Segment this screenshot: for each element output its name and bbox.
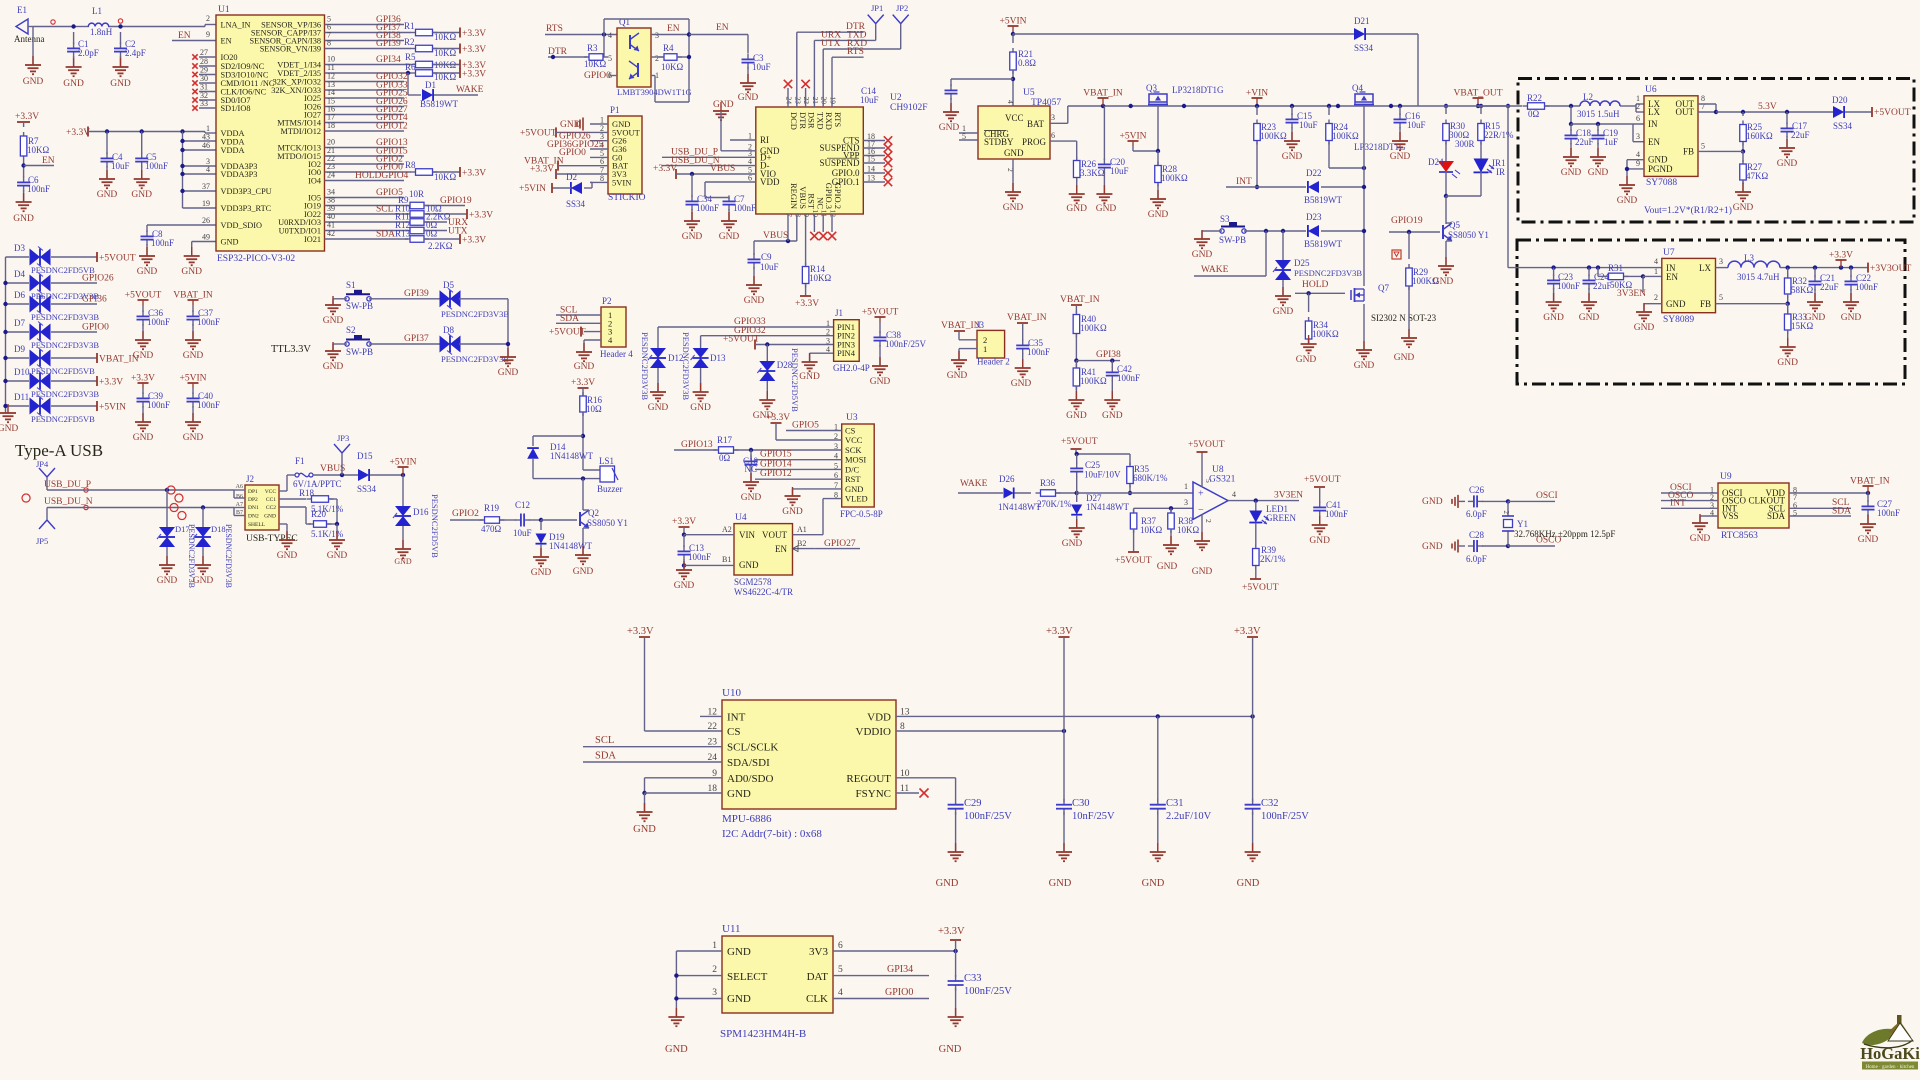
svg-text:SY7088: SY7088 xyxy=(1646,178,1677,188)
ground U5 GND pin2 xyxy=(1003,159,1024,213)
net GPIO33 to J1 pin1 xyxy=(658,317,834,327)
svg-text:1: 1 xyxy=(748,132,752,141)
svg-text:C33: C33 xyxy=(964,973,982,984)
net RTS U2 pin19 xyxy=(832,47,864,107)
svg-text:100nF/25V: 100nF/25V xyxy=(964,986,1012,997)
svg-text:LNA_IN: LNA_IN xyxy=(221,21,251,30)
svg-text:SS34: SS34 xyxy=(1354,43,1374,53)
svg-text:WS4622C-4/TR: WS4622C-4/TR xyxy=(734,587,793,597)
svg-text:14: 14 xyxy=(867,165,875,174)
svg-text:GND: GND xyxy=(665,1044,688,1055)
ground D25 xyxy=(1273,280,1294,317)
svg-text:GND: GND xyxy=(741,493,762,503)
ground C23 xyxy=(1543,288,1564,323)
switch S2 SW-PB xyxy=(333,325,373,357)
ground C42 xyxy=(1102,391,1123,421)
TVS diode D6 PESDNC2FD3V3B xyxy=(3,290,107,322)
capacitor C36 +5VOUT xyxy=(125,291,170,328)
svg-text:GPI36: GPI36 xyxy=(82,295,107,305)
svg-text:GND: GND xyxy=(1543,313,1564,323)
svg-text:GND: GND xyxy=(1148,210,1169,220)
net VBUS wire + antenna JP3 xyxy=(313,433,358,477)
svg-text:4: 4 xyxy=(608,31,612,40)
net GPIO32 xyxy=(325,72,408,83)
svg-text:1: 1 xyxy=(1654,267,1658,276)
svg-text:+5VIN: +5VIN xyxy=(390,458,417,468)
svg-text:SS8050 Y1: SS8050 Y1 xyxy=(1448,230,1489,240)
ground D27 xyxy=(1062,516,1085,549)
svg-text:CS: CS xyxy=(727,726,740,738)
svg-text:AD0/SDO: AD0/SDO xyxy=(727,773,774,785)
svg-text:B1: B1 xyxy=(722,555,731,564)
capacitor C4 xyxy=(101,132,130,172)
net SCL resistor R10 xyxy=(325,204,494,221)
capacitor C26 xyxy=(1466,485,1510,519)
svg-text:GND: GND xyxy=(1617,196,1638,206)
ground S1 xyxy=(323,296,344,326)
net GPIO2 + resistor R19 xyxy=(450,503,516,534)
svg-text:2.0pF: 2.0pF xyxy=(78,48,99,58)
svg-text:Home · garden · kitchen: Home · garden · kitchen xyxy=(1866,1065,1915,1070)
svg-text:DCD: DCD xyxy=(789,112,799,130)
capacitor C29 xyxy=(948,798,1013,822)
mosfet Q4 LP3218DT1G xyxy=(1336,83,1406,286)
svg-text:U5: U5 xyxy=(1023,88,1035,98)
svg-text:3: 3 xyxy=(1719,257,1723,266)
svg-text:100nF: 100nF xyxy=(147,400,170,410)
switch S3 SW-PB xyxy=(1202,214,1246,245)
svg-text:10KΩ: 10KΩ xyxy=(434,48,456,58)
svg-text:680K/1%: 680K/1% xyxy=(1133,473,1168,483)
capacitor C28 xyxy=(1466,530,1510,564)
ground J1 pin4 xyxy=(799,353,833,382)
svg-text:VDD_SDIO: VDD_SDIO xyxy=(221,221,263,230)
svg-text:GND: GND xyxy=(97,190,118,200)
svg-text:CS: CS xyxy=(845,426,856,436)
svg-text:Type-A USB: Type-A USB xyxy=(15,441,103,460)
svg-text:5.3V: 5.3V xyxy=(1758,102,1777,112)
svg-text:SS34: SS34 xyxy=(566,199,586,209)
svg-text:S1: S1 xyxy=(346,280,356,290)
svg-text:6: 6 xyxy=(838,941,843,951)
label Type-A USB xyxy=(15,441,103,460)
power flag VBAT_IN J3 xyxy=(941,320,985,331)
svg-text:+3.3V: +3.3V xyxy=(462,236,486,246)
svg-text:HOLDGPIO4: HOLDGPIO4 xyxy=(355,171,409,181)
ground C16 xyxy=(1390,127,1411,162)
TVS diode D28 xyxy=(757,345,800,413)
wire J2 VCC to F1 xyxy=(279,475,295,491)
svg-text:10: 10 xyxy=(811,210,820,218)
svg-text:SDA/SDI: SDA/SDI xyxy=(727,757,770,769)
ground C3 xyxy=(738,67,759,103)
svg-text:GND: GND xyxy=(1422,497,1443,507)
svg-text:+5VOUT: +5VOUT xyxy=(862,308,899,318)
svg-text:TTL3.3V: TTL3.3V xyxy=(271,344,311,355)
svg-text:100nF: 100nF xyxy=(145,161,168,171)
svg-text:J3: J3 xyxy=(976,320,985,330)
svg-text:+3.3V: +3.3V xyxy=(1234,626,1261,637)
svg-text:SDA: SDA xyxy=(595,751,616,762)
ground C20 xyxy=(1096,172,1117,214)
svg-text:Q4: Q4 xyxy=(1352,83,1363,93)
IC U5 TP4057 xyxy=(962,88,1061,172)
connector J1 GH2.0-4P xyxy=(826,308,870,373)
ground opamp xyxy=(1192,514,1213,577)
svg-text:2.2uF/10V: 2.2uF/10V xyxy=(1166,811,1212,822)
svg-text:+5VOUT: +5VOUT xyxy=(99,254,136,264)
ground Q7 xyxy=(1354,304,1375,371)
net GPI39 wire + TVS diode D5 xyxy=(369,280,509,319)
diode D15 SS34 xyxy=(357,451,403,494)
svg-text:23: 23 xyxy=(793,97,802,105)
svg-text:6: 6 xyxy=(1051,131,1055,140)
power flag +3.3V R7 xyxy=(15,112,39,127)
IC U7 SY8089 xyxy=(1654,248,1723,325)
svg-text:300R: 300R xyxy=(1455,139,1475,149)
svg-text:6.0pF: 6.0pF xyxy=(1466,554,1487,564)
ground C38 xyxy=(870,345,891,387)
svg-text:GND: GND xyxy=(713,100,734,110)
TVS diode D12 xyxy=(640,327,684,400)
wire U4 VIN xyxy=(684,534,734,536)
svg-text:VBUS: VBUS xyxy=(710,164,735,174)
svg-text:GND: GND xyxy=(870,377,891,387)
svg-text:13: 13 xyxy=(867,174,875,183)
svg-text:GPIO13: GPIO13 xyxy=(681,440,713,450)
svg-text:GND: GND xyxy=(323,316,344,326)
svg-text:D2: D2 xyxy=(566,172,577,182)
resistor R22 0ohm xyxy=(1523,93,1581,119)
svg-text:5: 5 xyxy=(1719,293,1723,302)
svg-text:GND: GND xyxy=(690,403,711,413)
wire U3 VLED to U4 VOUT xyxy=(823,499,842,535)
capacitor C42 xyxy=(1106,361,1140,400)
svg-text:OSCI: OSCI xyxy=(1536,491,1558,501)
net URX resistor R11 xyxy=(325,212,469,229)
svg-text:IR: IR xyxy=(1496,167,1505,177)
power +5VOUT opamp xyxy=(1188,440,1225,487)
svg-text:GPI38: GPI38 xyxy=(1096,350,1121,360)
TVS diode D7 PESDNC2FD3V3B xyxy=(3,318,109,350)
svg-text:VSS: VSS xyxy=(1722,511,1739,521)
svg-text:U10: U10 xyxy=(722,687,741,699)
svg-text:100nF: 100nF xyxy=(147,317,170,327)
transistor Q1 LMBT3904DW1T1G xyxy=(608,17,692,97)
svg-text:R20: R20 xyxy=(311,509,327,519)
svg-text:VBAT_IN: VBAT_IN xyxy=(1850,477,1890,487)
svg-text:DP1: DP1 xyxy=(248,489,258,495)
svg-text:BAT: BAT xyxy=(1027,119,1045,129)
ground C21 xyxy=(1805,289,1826,323)
svg-text:100KΩ: 100KΩ xyxy=(1260,131,1287,141)
ground D17 xyxy=(157,547,178,586)
svg-text:SW-PB: SW-PB xyxy=(346,301,373,311)
svg-text:SY8089: SY8089 xyxy=(1663,315,1694,325)
svg-text:GND: GND xyxy=(1561,168,1582,178)
U10 FSYNC X xyxy=(896,789,929,798)
net SDA U10 xyxy=(583,751,722,763)
ground C6 xyxy=(13,190,34,224)
svg-text:Q5: Q5 xyxy=(1449,220,1460,230)
net RXD UTX U2 pin20 + antenna JP2 xyxy=(821,3,909,107)
svg-text:D/C: D/C xyxy=(845,464,860,474)
op IC U1 ESP32-PICO-V3-02 xyxy=(216,5,325,264)
svg-text:Q7: Q7 xyxy=(1378,283,1389,293)
svg-text:2: 2 xyxy=(1654,293,1658,302)
svg-text:D9: D9 xyxy=(14,344,25,354)
svg-text:10uF: 10uF xyxy=(1110,166,1129,176)
ground C17 xyxy=(1777,136,1798,169)
svg-text:SUSPEND: SUSPEND xyxy=(819,158,860,168)
svg-text:GPIO.3: GPIO.3 xyxy=(824,183,834,209)
resistor R32 xyxy=(1784,268,1813,306)
svg-text:RST: RST xyxy=(845,474,861,484)
power +5VOUT C25 xyxy=(1061,437,1130,465)
power flag VBAT_OUT xyxy=(1453,89,1502,109)
svg-text:DAT: DAT xyxy=(807,971,829,983)
wire J2 left pins xyxy=(234,490,245,516)
svg-text:+5VOUT: +5VOUT xyxy=(125,291,162,301)
svg-text:GND: GND xyxy=(939,123,960,133)
EN wire to U1 pin9 xyxy=(172,31,216,41)
svg-text:U9: U9 xyxy=(1720,472,1732,482)
svg-text:GND: GND xyxy=(799,372,820,382)
capacitor C13 xyxy=(678,535,735,568)
svg-text:24: 24 xyxy=(327,171,335,180)
svg-text:100KΩ: 100KΩ xyxy=(1312,329,1339,339)
svg-text:GND: GND xyxy=(936,878,959,889)
ground R28 xyxy=(1148,183,1169,220)
svg-text:E1: E1 xyxy=(17,5,27,15)
net GPI37 pin6 + resistor R1 xyxy=(325,21,487,42)
svg-text:22uF: 22uF xyxy=(1820,282,1839,292)
svg-text:U11: U11 xyxy=(722,923,741,935)
svg-text:GND: GND xyxy=(744,296,765,306)
svg-text:GND: GND xyxy=(1805,313,1826,323)
svg-text:1: 1 xyxy=(712,941,717,951)
inductor L1 xyxy=(88,6,112,37)
svg-text:19: 19 xyxy=(202,199,210,208)
antenna JP5 xyxy=(36,508,55,547)
svg-text:GND: GND xyxy=(1237,878,1260,889)
svg-text:R13: R13 xyxy=(395,229,411,239)
svg-text:GPI34: GPI34 xyxy=(887,964,913,975)
net GPIO0 U11 CLK xyxy=(833,987,929,999)
svg-text:TXD: TXD xyxy=(815,112,825,129)
svg-text:GND: GND xyxy=(110,79,131,89)
svg-text:SW-PB: SW-PB xyxy=(1219,235,1246,245)
ground C7 xyxy=(719,209,740,242)
svg-text:100nF/25V: 100nF/25V xyxy=(1261,811,1309,822)
svg-text:VDD3P3_RTC: VDD3P3_RTC xyxy=(221,204,272,213)
diode D20 SS34 xyxy=(1832,95,1872,131)
svg-text:3: 3 xyxy=(655,31,659,40)
svg-text:D15: D15 xyxy=(357,451,373,461)
label TTL3.3V xyxy=(271,344,311,355)
svg-text:GND: GND xyxy=(531,568,552,578)
svg-text:GND: GND xyxy=(183,351,204,361)
net GPI36 pin5 xyxy=(325,15,405,26)
svg-text:U1: U1 xyxy=(218,5,230,15)
svg-text:C9: C9 xyxy=(761,252,772,262)
svg-text:INT: INT xyxy=(1670,499,1686,509)
svg-text:5: 5 xyxy=(1204,479,1213,483)
mosfet Q3 LP3218DT1G xyxy=(1146,83,1224,151)
svg-text:GND: GND xyxy=(727,993,751,1005)
wire U10 VDD rail xyxy=(896,714,1255,718)
svg-text:U8: U8 xyxy=(1212,465,1224,475)
net DTR U2 pin23 xyxy=(797,22,866,107)
svg-text:SCL/SCLK: SCL/SCLK xyxy=(727,742,778,754)
capacitor C3 xyxy=(742,53,771,72)
svg-text:5: 5 xyxy=(1701,142,1705,151)
resistor R31 + net 3V3EN xyxy=(1598,263,1662,299)
svg-text:DSR: DSR xyxy=(807,112,817,129)
ground P1 pin1 sideways xyxy=(560,118,583,131)
svg-text:CC2: CC2 xyxy=(266,505,276,511)
net USB_DU_N wire xyxy=(22,494,234,519)
svg-text:2: 2 xyxy=(712,965,717,975)
wire U7 FB xyxy=(1716,303,1788,305)
net HOLDGPIO4 pin24 xyxy=(325,171,409,182)
wire to Q2 base xyxy=(541,519,577,521)
svg-text:1N4148WT: 1N4148WT xyxy=(1086,502,1129,512)
svg-text:GND: GND xyxy=(0,424,18,434)
IC U6 SY7088 xyxy=(1636,85,1705,188)
svg-text:100nF: 100nF xyxy=(1027,347,1050,357)
svg-text:GPIO2: GPIO2 xyxy=(452,509,479,519)
svg-text:EN: EN xyxy=(178,31,191,41)
svg-text:PESDNC2FD3V3B: PESDNC2FD3V3B xyxy=(441,354,509,364)
capacitor C16 xyxy=(1394,104,1426,130)
svg-text:GND: GND xyxy=(727,788,751,800)
svg-text:10uF: 10uF xyxy=(760,262,779,272)
net GPIO13 xyxy=(325,138,408,149)
svg-text:GPIO14: GPIO14 xyxy=(760,459,792,469)
svg-text:R1: R1 xyxy=(404,21,415,31)
svg-text:GND: GND xyxy=(1588,168,1609,178)
svg-text:SHELL: SHELL xyxy=(248,522,266,528)
svg-text:VCC: VCC xyxy=(845,435,863,445)
svg-text:LP3218DT1G: LP3218DT1G xyxy=(1172,85,1224,95)
capacitor C23 xyxy=(1547,268,1580,291)
net GPI37 wire + TVS diode D8 xyxy=(369,325,509,364)
svg-text:D7: D7 xyxy=(14,318,25,328)
svg-text:47KΩ: 47KΩ xyxy=(1746,171,1768,181)
svg-text:B5819WT: B5819WT xyxy=(1304,239,1342,249)
svg-text:+5VOUT: +5VOUT xyxy=(520,129,557,139)
wire U10 REGOUT + capacitor C29 xyxy=(896,778,956,799)
vertical VDD bus xyxy=(180,132,216,209)
TVS diode D11 PESDNC2FD5VB xyxy=(3,392,126,424)
svg-text:VDDA3P3: VDDA3P3 xyxy=(221,170,258,179)
ground C33 xyxy=(939,988,964,1055)
svg-text:GND: GND xyxy=(23,77,44,87)
ground C31 xyxy=(1142,812,1166,889)
svg-text:GPIO19: GPIO19 xyxy=(1391,216,1423,226)
LED LED1 GREEN xyxy=(1249,501,1296,524)
svg-text:+3.3V: +3.3V xyxy=(653,164,677,174)
ground U10 symbol xyxy=(633,803,656,835)
capacitor C39 +3.3V xyxy=(131,374,170,411)
svg-text:+5VIN: +5VIN xyxy=(1120,132,1147,142)
svg-text:GND: GND xyxy=(183,433,204,443)
svg-text:RST: RST xyxy=(807,193,817,209)
svg-text:3V3EN: 3V3EN xyxy=(1274,491,1303,501)
svg-text:VOUT: VOUT xyxy=(762,530,787,540)
power +5VOUT R37 xyxy=(1115,552,1152,566)
svg-text:SCK: SCK xyxy=(845,445,862,455)
diode D1 B5819WT + WAKE xyxy=(408,73,484,109)
capacitor C27 xyxy=(1862,493,1901,518)
net OSCO wire xyxy=(1508,536,1561,547)
svg-text:4: 4 xyxy=(1006,100,1015,104)
connector J3 Header 2 xyxy=(977,330,1010,366)
svg-text:C29: C29 xyxy=(964,798,982,809)
power +5VOUT to J1 pin3 xyxy=(723,335,834,350)
svg-text:P2: P2 xyxy=(602,296,612,306)
svg-text:4: 4 xyxy=(1654,257,1658,266)
svg-text:EN: EN xyxy=(716,23,729,33)
svg-text:L3: L3 xyxy=(1744,253,1754,263)
wire U5 PROG + resistor R26 xyxy=(1050,141,1105,181)
svg-text:VBAT_IN: VBAT_IN xyxy=(1083,89,1123,99)
net pin11 + resistor R6 xyxy=(325,62,487,82)
svg-text:GND: GND xyxy=(947,371,968,381)
svg-text:VDD: VDD xyxy=(867,711,891,723)
TVS diode D13 xyxy=(681,332,726,400)
resistor R27 xyxy=(1740,151,1769,184)
ground C39 xyxy=(133,406,154,443)
svg-text:100nF: 100nF xyxy=(696,203,719,213)
svg-text:GND: GND xyxy=(1309,536,1330,546)
power VBAT_IN P1 pin6 xyxy=(524,157,590,171)
svg-text:+5VOUT: +5VOUT xyxy=(1061,437,1098,447)
svg-text:JP2: JP2 xyxy=(896,3,908,13)
TVS diode D17 xyxy=(157,490,196,588)
ground C24 xyxy=(1579,288,1600,323)
net TXD URX U2 pin21 + antenna JP1 xyxy=(814,3,883,107)
power flag +VIN xyxy=(1246,89,1268,109)
ground U1 pin49 xyxy=(181,242,216,278)
capacitor C2 xyxy=(114,32,146,58)
svg-text:R18: R18 xyxy=(299,488,315,498)
net GPIO12 U3 RST xyxy=(755,469,842,479)
svg-text:10uF: 10uF xyxy=(513,528,532,538)
svg-text:LX: LX xyxy=(1699,263,1711,273)
svg-text:TP4057: TP4057 xyxy=(1031,98,1061,108)
wire D5 D8 join + ground xyxy=(498,299,519,378)
ground ESD bus xyxy=(0,404,18,434)
ground C34 xyxy=(682,209,703,242)
ground Q5 xyxy=(1433,241,1454,287)
ground C10 xyxy=(741,469,762,503)
ground P2 pin4 xyxy=(574,340,595,372)
net USB_DU_P wire xyxy=(44,480,234,502)
svg-text:GND: GND xyxy=(738,93,759,103)
ground C41 xyxy=(1309,515,1330,546)
svg-text:SS34: SS34 xyxy=(1833,121,1853,131)
svg-text:42: 42 xyxy=(327,229,335,238)
svg-text:U6: U6 xyxy=(1645,85,1657,95)
svg-text:58KΩ: 58KΩ xyxy=(1791,285,1813,295)
svg-text:WAKE: WAKE xyxy=(456,85,484,95)
ground C8 xyxy=(137,244,158,277)
svg-text:GND: GND xyxy=(1157,562,1178,572)
svg-text:3: 3 xyxy=(1184,498,1188,507)
capacitor C19 xyxy=(1592,124,1619,147)
